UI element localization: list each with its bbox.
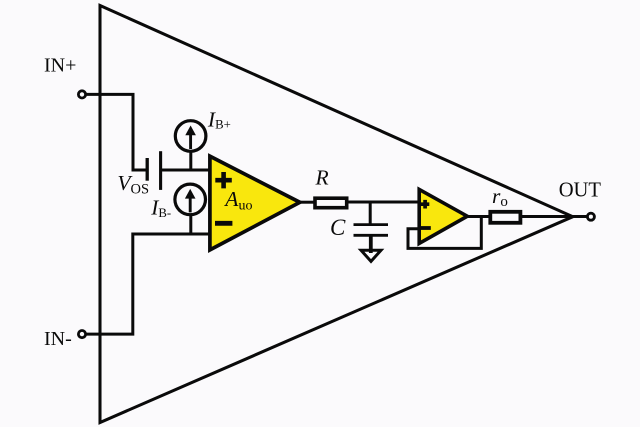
svg-text:C: C — [330, 215, 346, 240]
svg-text:IN-: IN- — [44, 328, 72, 350]
svg-text:R: R — [315, 166, 329, 190]
svg-text:IN+: IN+ — [44, 55, 76, 77]
svg-text:OUT: OUT — [559, 179, 602, 201]
